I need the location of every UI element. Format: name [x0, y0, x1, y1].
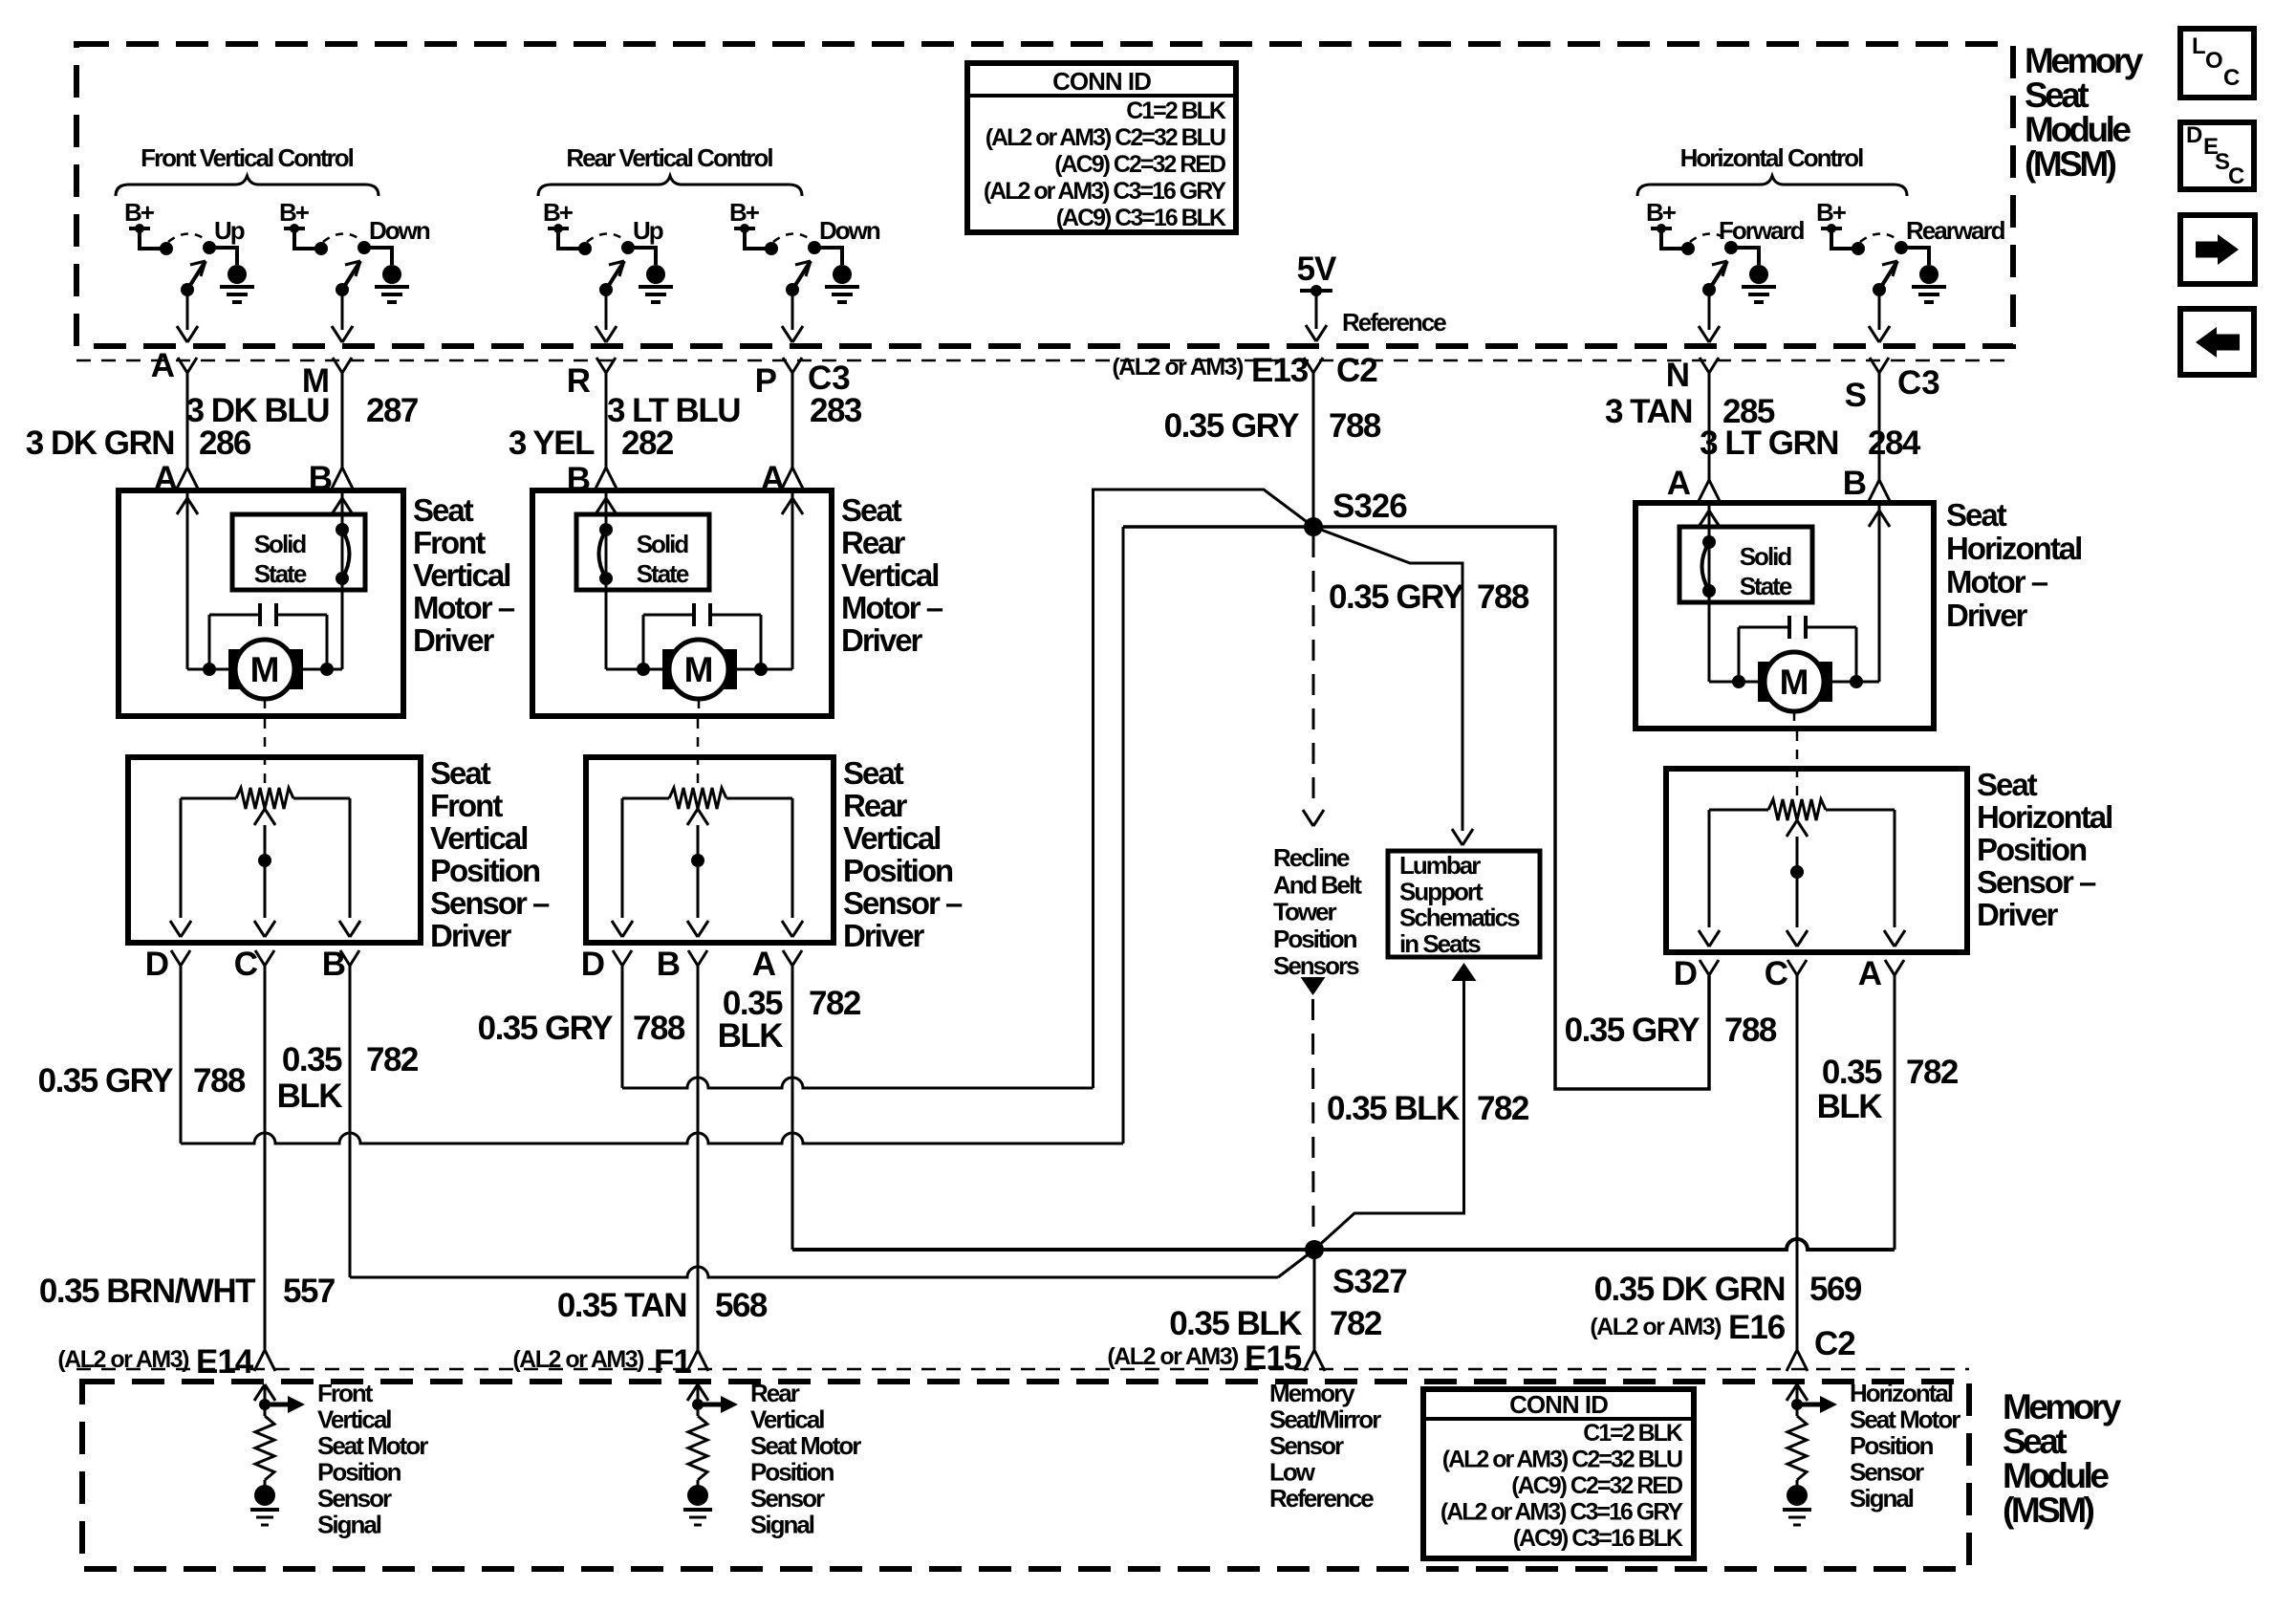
switch "Up" output wire: [186, 290, 189, 330]
svg-text:B+: B+: [124, 198, 155, 227]
svg-text:0.35 GRY: 0.35 GRY: [1164, 407, 1300, 445]
svg-text:(AC9) C2=32 RED: (AC9) C2=32 RED: [1054, 151, 1225, 178]
svg-text:BLK: BLK: [718, 1017, 784, 1055]
dashed link to sensor: [1793, 711, 1796, 729]
svg-text:(MSM): (MSM): [2025, 144, 2116, 184]
switch "Up" movable arm: [187, 261, 206, 290]
outer legs: [180, 798, 183, 918]
switch "Rearward" ground leg: [1901, 248, 1929, 265]
svg-text:Seat: Seat: [841, 492, 902, 528]
svg-text:And Belt: And Belt: [1273, 870, 1362, 899]
resistor to ground: [697, 1404, 700, 1416]
left-arrow legend box: [2180, 309, 2254, 375]
svg-text:(AL2 or AM3) C2=32 BLU: (AL2 or AM3) C2=32 BLU: [986, 124, 1225, 151]
svg-text:Sensor –: Sensor –: [1977, 864, 2096, 900]
motor M: [1709, 681, 1879, 684]
svg-text:Position: Position: [1273, 925, 1357, 953]
rear D wire: down, right, up to S326: [621, 967, 624, 1088]
pin wires with up arrows: [605, 490, 608, 669]
svg-text:C2: C2: [1814, 1325, 1855, 1362]
svg-text:B: B: [1843, 465, 1867, 502]
svg-text:O: O: [2205, 48, 2223, 74]
svg-text:788: 788: [1724, 1012, 1777, 1049]
svg-text:3 LT GRN: 3 LT GRN: [1700, 425, 1838, 462]
switch "Forward" movable arm: [1709, 261, 1727, 290]
svg-text:M: M: [1780, 663, 1809, 702]
switch "Up" dashed throw arc: [168, 233, 206, 242]
thin dashed connector line below top box: [76, 359, 2013, 362]
svg-text:(AL2 or AM3): (AL2 or AM3): [1112, 354, 1244, 381]
svg-text:Low: Low: [1269, 1458, 1316, 1487]
switch "Down" dashed throw arc: [773, 233, 812, 242]
svg-text:B+: B+: [1816, 198, 1847, 227]
svg-text:Seat: Seat: [1977, 767, 2038, 802]
svg-text:Front: Front: [413, 525, 486, 560]
potentiometer resistor: [1709, 809, 1768, 812]
ground: [1787, 1485, 1808, 1506]
svg-text:B: B: [322, 946, 346, 983]
motor enclosure box: [532, 490, 832, 716]
svg-text:788: 788: [1329, 407, 1381, 445]
svg-text:Vertical: Vertical: [750, 1405, 824, 1434]
svg-text:D: D: [2186, 122, 2202, 148]
motor M: [187, 668, 342, 671]
main low-reference bus: [792, 1239, 1895, 1250]
svg-text:B+: B+: [543, 198, 574, 227]
svg-text:Module: Module: [2025, 110, 2131, 149]
svg-text:(AL2 or AM3): (AL2 or AM3): [1590, 1314, 1722, 1340]
svg-text:Down: Down: [819, 216, 880, 245]
svg-text:A: A: [752, 946, 776, 983]
capacitor: [1787, 616, 1791, 639]
svg-text:Driver: Driver: [1946, 598, 2028, 633]
svg-text:State: State: [637, 559, 689, 588]
svg-text:Rear: Rear: [750, 1379, 800, 1407]
motor M: [606, 668, 792, 671]
E15 wire: [1313, 1250, 1316, 1350]
svg-text:Rear: Rear: [841, 525, 906, 560]
svg-text:283: 283: [810, 392, 862, 429]
switch "Down" output wire: [341, 290, 344, 330]
rear A wire down to S327 bus: [791, 967, 794, 1250]
signal arrow right: [265, 1403, 288, 1407]
horizontal C wire straight down to E16: [1796, 976, 1799, 1350]
svg-text:788: 788: [633, 1010, 685, 1047]
svg-text:Position: Position: [1850, 1431, 1934, 1460]
switch "Forward" dashed throw arc: [1690, 233, 1728, 242]
svg-text:Driver: Driver: [413, 622, 495, 658]
svg-text:788: 788: [1477, 578, 1529, 616]
resistor to ground: [264, 1404, 267, 1416]
position sensor box: [1666, 769, 1967, 952]
svg-text:0.35 GRY: 0.35 GRY: [38, 1062, 174, 1099]
solid state box: [576, 514, 709, 590]
switch "Down" movable arm: [792, 261, 811, 290]
solid state box: [232, 514, 365, 590]
svg-text:M: M: [250, 650, 280, 689]
svg-text:(AC9) C3=16 BLK: (AC9) C3=16 BLK: [1513, 1525, 1683, 1552]
pin wires with up arrows: [1708, 503, 1711, 682]
svg-text:Recline: Recline: [1273, 843, 1350, 872]
svg-text:Driver: Driver: [843, 918, 925, 953]
svg-text:569: 569: [1809, 1271, 1862, 1308]
svg-text:D: D: [1674, 955, 1698, 992]
switch "Forward" ground leg: [1731, 248, 1759, 265]
svg-text:782: 782: [809, 985, 861, 1022]
svg-text:L: L: [2192, 33, 2206, 59]
svg-text:Sensor: Sensor: [750, 1484, 825, 1513]
svg-text:5V: 5V: [1297, 250, 1337, 288]
branch from rear sensor D (upper-left): [1094, 490, 1314, 1088]
position sensor box: [586, 757, 834, 943]
svg-text:Vertical: Vertical: [430, 820, 527, 856]
svg-text:Vertical: Vertical: [843, 820, 940, 856]
solid state switch contacts: [336, 523, 349, 536]
signal arrow up: [264, 1384, 267, 1404]
dashed link into box: [1796, 731, 1799, 797]
svg-text:Front: Front: [317, 1379, 374, 1407]
svg-text:Position: Position: [317, 1458, 401, 1487]
wiper: [1796, 837, 1799, 927]
svg-text:0.35 DK GRN: 0.35 DK GRN: [1594, 1271, 1785, 1308]
svg-text:State: State: [254, 559, 307, 588]
svg-text:F1: F1: [654, 1343, 691, 1381]
svg-text:557: 557: [283, 1273, 335, 1310]
svg-text:Solid: Solid: [1740, 542, 1792, 571]
dashed link into box: [264, 719, 267, 786]
svg-text:Reference: Reference: [1269, 1484, 1374, 1513]
svg-text:(AL2 or AM3) C3=16 GRY: (AL2 or AM3) C3=16 GRY: [1440, 1499, 1683, 1526]
svg-text:C: C: [1765, 955, 1788, 992]
svg-text:Rear: Rear: [843, 788, 908, 823]
rear B wire straight down to F1: [697, 967, 700, 1350]
svg-text:S: S: [1845, 377, 1867, 414]
svg-text:(AL2 or AM3) C3=16 GRY: (AL2 or AM3) C3=16 GRY: [984, 178, 1226, 205]
svg-text:Lumbar: Lumbar: [1399, 851, 1481, 880]
svg-text:Seat Motor: Seat Motor: [1850, 1405, 1960, 1434]
svg-text:S326: S326: [1332, 488, 1407, 525]
svg-text:3 YEL: 3 YEL: [509, 425, 595, 462]
wires row1 to motor boxes: [186, 381, 189, 456]
svg-text:Horizontal Control: Horizontal Control: [1680, 143, 1864, 172]
svg-text:(AL2 or AM3): (AL2 or AM3): [1107, 1343, 1239, 1370]
svg-text:Driver: Driver: [841, 622, 923, 658]
svg-text:(AC9) C3=16 BLK: (AC9) C3=16 BLK: [1056, 205, 1226, 231]
dashed wire Recline to S327: [1311, 999, 1315, 1229]
svg-text:Memory: Memory: [1269, 1379, 1355, 1407]
switch "Down" ground leg: [364, 248, 392, 265]
horizontal A wire down to S327 bus right end: [1894, 976, 1896, 1250]
svg-text:282: 282: [621, 425, 674, 462]
svg-text:Horizontal: Horizontal: [1977, 799, 2112, 835]
svg-text:Signal: Signal: [1850, 1484, 1914, 1513]
capacitor: [692, 603, 696, 626]
resistor to ground: [1796, 1404, 1799, 1416]
svg-text:Seat: Seat: [843, 755, 904, 791]
right-arrow legend box: [2180, 215, 2255, 284]
svg-text:Position: Position: [843, 853, 953, 888]
switch "Down" ground leg: [814, 248, 842, 265]
signal arrow right: [1797, 1403, 1820, 1407]
switch "Rearward" output wire: [1878, 290, 1881, 330]
svg-text:Sensor: Sensor: [317, 1484, 392, 1513]
svg-text:782: 782: [1477, 1090, 1529, 1127]
svg-text:C3: C3: [1897, 364, 1940, 402]
svg-text:in Seats: in Seats: [1399, 929, 1481, 958]
ground: [687, 1485, 708, 1506]
svg-text:C: C: [2223, 65, 2240, 91]
Lumbar Support Schematics in Seats box: [1388, 851, 1540, 957]
svg-text:D: D: [581, 946, 605, 983]
svg-text:Down: Down: [369, 216, 430, 245]
front sensor B branch into S327: [350, 1267, 1278, 1277]
svg-text:N: N: [1666, 357, 1690, 394]
svg-text:Schematics: Schematics: [1399, 903, 1520, 932]
switch "Up" output wire: [605, 290, 608, 330]
S326 bus to horizontal sensor D: [1122, 527, 1125, 1143]
svg-text:S327: S327: [1332, 1263, 1407, 1300]
svg-text:Seat/Mirror: Seat/Mirror: [1269, 1405, 1381, 1434]
dashed link into box: [697, 719, 700, 786]
sensor pin connectors: [171, 950, 181, 966]
svg-text:0.35: 0.35: [282, 1041, 342, 1078]
svg-text:Motor –: Motor –: [413, 590, 515, 625]
svg-text:782: 782: [366, 1041, 419, 1078]
outer legs: [621, 798, 624, 918]
svg-text:Vertical: Vertical: [317, 1405, 391, 1434]
svg-text:Forward: Forward: [1719, 216, 1805, 245]
svg-text:E13: E13: [1251, 352, 1309, 389]
position sensor box: [128, 757, 421, 943]
svg-text:Rearward: Rearward: [1906, 216, 2005, 245]
svg-text:Sensor –: Sensor –: [430, 885, 550, 921]
switch "Up" ground leg: [209, 248, 237, 265]
svg-text:C2: C2: [1336, 352, 1377, 389]
svg-text:P: P: [755, 362, 777, 400]
S326 branch to lumbar box: [1313, 527, 1462, 831]
svg-text:Seat: Seat: [413, 492, 474, 528]
CONN ID table: [1423, 1389, 1694, 1558]
LOC legend box: [2180, 29, 2254, 98]
svg-text:A: A: [151, 347, 175, 384]
switch "Up" ground leg: [628, 248, 656, 265]
outer legs: [1708, 810, 1711, 927]
switch "Rearward" movable arm: [1879, 261, 1897, 290]
svg-text:BLK: BLK: [277, 1078, 343, 1115]
front C wire straight down to E14: [264, 967, 267, 1350]
sensor pin connectors: [1700, 960, 1709, 975]
svg-text:Horizontal: Horizontal: [1946, 531, 2081, 566]
svg-text:Signal: Signal: [317, 1511, 381, 1539]
svg-text:Front: Front: [430, 788, 503, 823]
svg-text:D: D: [145, 946, 169, 983]
svg-text:Sensors: Sensors: [1273, 951, 1359, 980]
svg-text:C1=2 BLK: C1=2 BLK: [1583, 1420, 1683, 1447]
switch "Up" movable arm: [606, 261, 624, 290]
svg-text:0.35 GRY: 0.35 GRY: [478, 1010, 614, 1047]
svg-text:Vertical: Vertical: [841, 557, 938, 593]
svg-text:Tower: Tower: [1273, 898, 1337, 926]
svg-text:E16: E16: [1728, 1309, 1786, 1346]
svg-text:CONN ID: CONN ID: [1509, 1390, 1608, 1419]
switch "Down" pivot contact: [808, 241, 821, 254]
signal arrow up: [1796, 1384, 1799, 1404]
svg-text:C: C: [2228, 163, 2244, 189]
svg-text:B+: B+: [1646, 198, 1677, 227]
solid state box: [1679, 527, 1812, 602]
connector row 1 : Y connectors: [178, 358, 187, 373]
dashed link to sensor: [698, 699, 701, 716]
svg-text:287: 287: [366, 392, 418, 429]
svg-text:0.35 GRY: 0.35 GRY: [1329, 578, 1464, 616]
motor-box pin connectors (inverted Y) + letters: [186, 456, 189, 468]
svg-text:E14: E14: [196, 1343, 254, 1381]
svg-text:Module: Module: [2003, 1456, 2109, 1495]
svg-text:0.35 BLK: 0.35 BLK: [1327, 1090, 1460, 1127]
switch "Down" pivot contact: [357, 241, 371, 254]
svg-text:(AL2 or AM3) C2=32 BLU: (AL2 or AM3) C2=32 BLU: [1442, 1447, 1682, 1473]
svg-text:3 TAN: 3 TAN: [1605, 393, 1692, 430]
motor enclosure box: [1635, 503, 1934, 729]
svg-text:788: 788: [193, 1062, 246, 1099]
svg-text:Seat Motor: Seat Motor: [317, 1431, 428, 1460]
svg-text:Front Vertical Control: Front Vertical Control: [141, 143, 354, 172]
svg-text:Motor –: Motor –: [841, 590, 943, 625]
svg-text:Seat Motor: Seat Motor: [750, 1431, 861, 1460]
svg-text:E15: E15: [1245, 1339, 1302, 1377]
svg-text:Seat: Seat: [1946, 497, 2007, 533]
svg-text:(MSM): (MSM): [2003, 1491, 2094, 1530]
svg-text:0.35 GRY: 0.35 GRY: [1565, 1012, 1700, 1049]
svg-text:C: C: [234, 946, 258, 983]
svg-text:Seat: Seat: [2025, 76, 2089, 115]
svg-text:3 DK GRN: 3 DK GRN: [26, 425, 174, 462]
switch "Down" movable arm: [342, 261, 360, 290]
switch "Up" pivot contact: [203, 241, 216, 254]
sensor pin connectors: [613, 950, 622, 966]
svg-text:A: A: [1858, 955, 1882, 992]
svg-text:State: State: [1740, 572, 1792, 600]
switch "Rearward" pivot contact: [1895, 241, 1908, 254]
svg-text:Seat: Seat: [430, 755, 491, 791]
svg-text:284: 284: [1868, 425, 1921, 462]
svg-text:Reference: Reference: [1342, 308, 1446, 337]
switch "Rearward" dashed throw arc: [1860, 233, 1898, 242]
svg-text:Solid: Solid: [254, 530, 307, 558]
svg-text:0.35 BRN/WHT: 0.35 BRN/WHT: [39, 1273, 255, 1310]
svg-text:(AC9) C2=32 RED: (AC9) C2=32 RED: [1511, 1472, 1682, 1499]
potentiometer resistor: [181, 797, 236, 800]
svg-text:Motor –: Motor –: [1946, 564, 2048, 599]
dashed link to sensor: [264, 699, 267, 716]
switch "Up" dashed throw arc: [587, 233, 625, 242]
svg-text:568: 568: [715, 1287, 768, 1324]
svg-text:C1=2 BLK: C1=2 BLK: [1126, 98, 1226, 124]
svg-text:BLK: BLK: [1817, 1088, 1883, 1125]
svg-text:Memory: Memory: [2003, 1387, 2122, 1426]
svg-text:Sensor –: Sensor –: [843, 885, 963, 921]
dashed low-reference wire down from S326: [1312, 536, 1315, 811]
svg-text:M: M: [684, 650, 714, 689]
E13 wire down to S326: [1312, 381, 1315, 527]
solid state switch contacts: [599, 523, 613, 536]
svg-text:CONN ID: CONN ID: [1052, 67, 1151, 96]
DESC legend box: [2180, 122, 2254, 189]
svg-text:0.35 TAN: 0.35 TAN: [557, 1287, 686, 1324]
wiper: [264, 825, 267, 918]
solid state switch contacts: [1702, 535, 1716, 549]
wire from lumbar box down to S327: [1452, 963, 1477, 981]
svg-text:286: 286: [199, 425, 251, 462]
svg-text:0.35: 0.35: [1822, 1054, 1882, 1091]
svg-text:B+: B+: [729, 198, 760, 227]
switch "Down" dashed throw arc: [323, 233, 361, 242]
svg-text:Up: Up: [214, 216, 245, 245]
svg-text:Sensor: Sensor: [1850, 1458, 1924, 1487]
thin dashed connector line above bottom box: [76, 1368, 1969, 1371]
switch "Forward" output wire: [1708, 290, 1711, 330]
svg-text:Rear Vertical Control: Rear Vertical Control: [566, 143, 772, 172]
ground: [254, 1485, 275, 1506]
switch "Down" output wire: [791, 290, 794, 330]
svg-text:Horizontal: Horizontal: [1850, 1379, 1953, 1407]
svg-text:Vertical: Vertical: [413, 557, 509, 593]
svg-text:Solid: Solid: [637, 530, 689, 558]
svg-text:Memory: Memory: [2025, 41, 2144, 80]
svg-text:Seat: Seat: [2003, 1422, 2067, 1461]
svg-text:B+: B+: [279, 198, 310, 227]
motor enclosure box: [119, 490, 403, 716]
svg-text:Position: Position: [750, 1458, 834, 1487]
svg-text:Position: Position: [430, 853, 540, 888]
svg-text:A: A: [1667, 465, 1691, 502]
svg-text:782: 782: [1906, 1054, 1959, 1091]
front B wire down then right to S327: [349, 967, 352, 1277]
switch "Up" pivot contact: [621, 241, 635, 254]
CONN ID table: [967, 63, 1236, 232]
svg-text:Position: Position: [1977, 832, 2087, 867]
svg-text:Support: Support: [1399, 877, 1484, 905]
svg-text:Signal: Signal: [750, 1511, 814, 1539]
S326 junction dot: [1304, 517, 1323, 536]
potentiometer resistor: [622, 797, 669, 800]
svg-text:Sensor: Sensor: [1269, 1431, 1344, 1460]
svg-text:0.35 BLK: 0.35 BLK: [1169, 1305, 1302, 1342]
svg-text:R: R: [567, 362, 591, 400]
signal arrow up: [697, 1384, 700, 1404]
svg-text:B: B: [657, 946, 681, 983]
wiper: [697, 825, 700, 918]
svg-text:Driver: Driver: [1977, 897, 2059, 932]
pin wires with up arrows: [186, 490, 189, 669]
triangle below Recline text: [1301, 977, 1326, 995]
signal arrow right: [698, 1403, 721, 1407]
capacitor: [258, 603, 262, 626]
svg-text:Driver: Driver: [430, 918, 512, 953]
svg-text:Up: Up: [633, 216, 663, 245]
svg-text:782: 782: [1330, 1305, 1382, 1342]
front D wire: down, right, up to S326 bus corner: [180, 967, 183, 1143]
switch "Forward" pivot contact: [1724, 241, 1738, 254]
